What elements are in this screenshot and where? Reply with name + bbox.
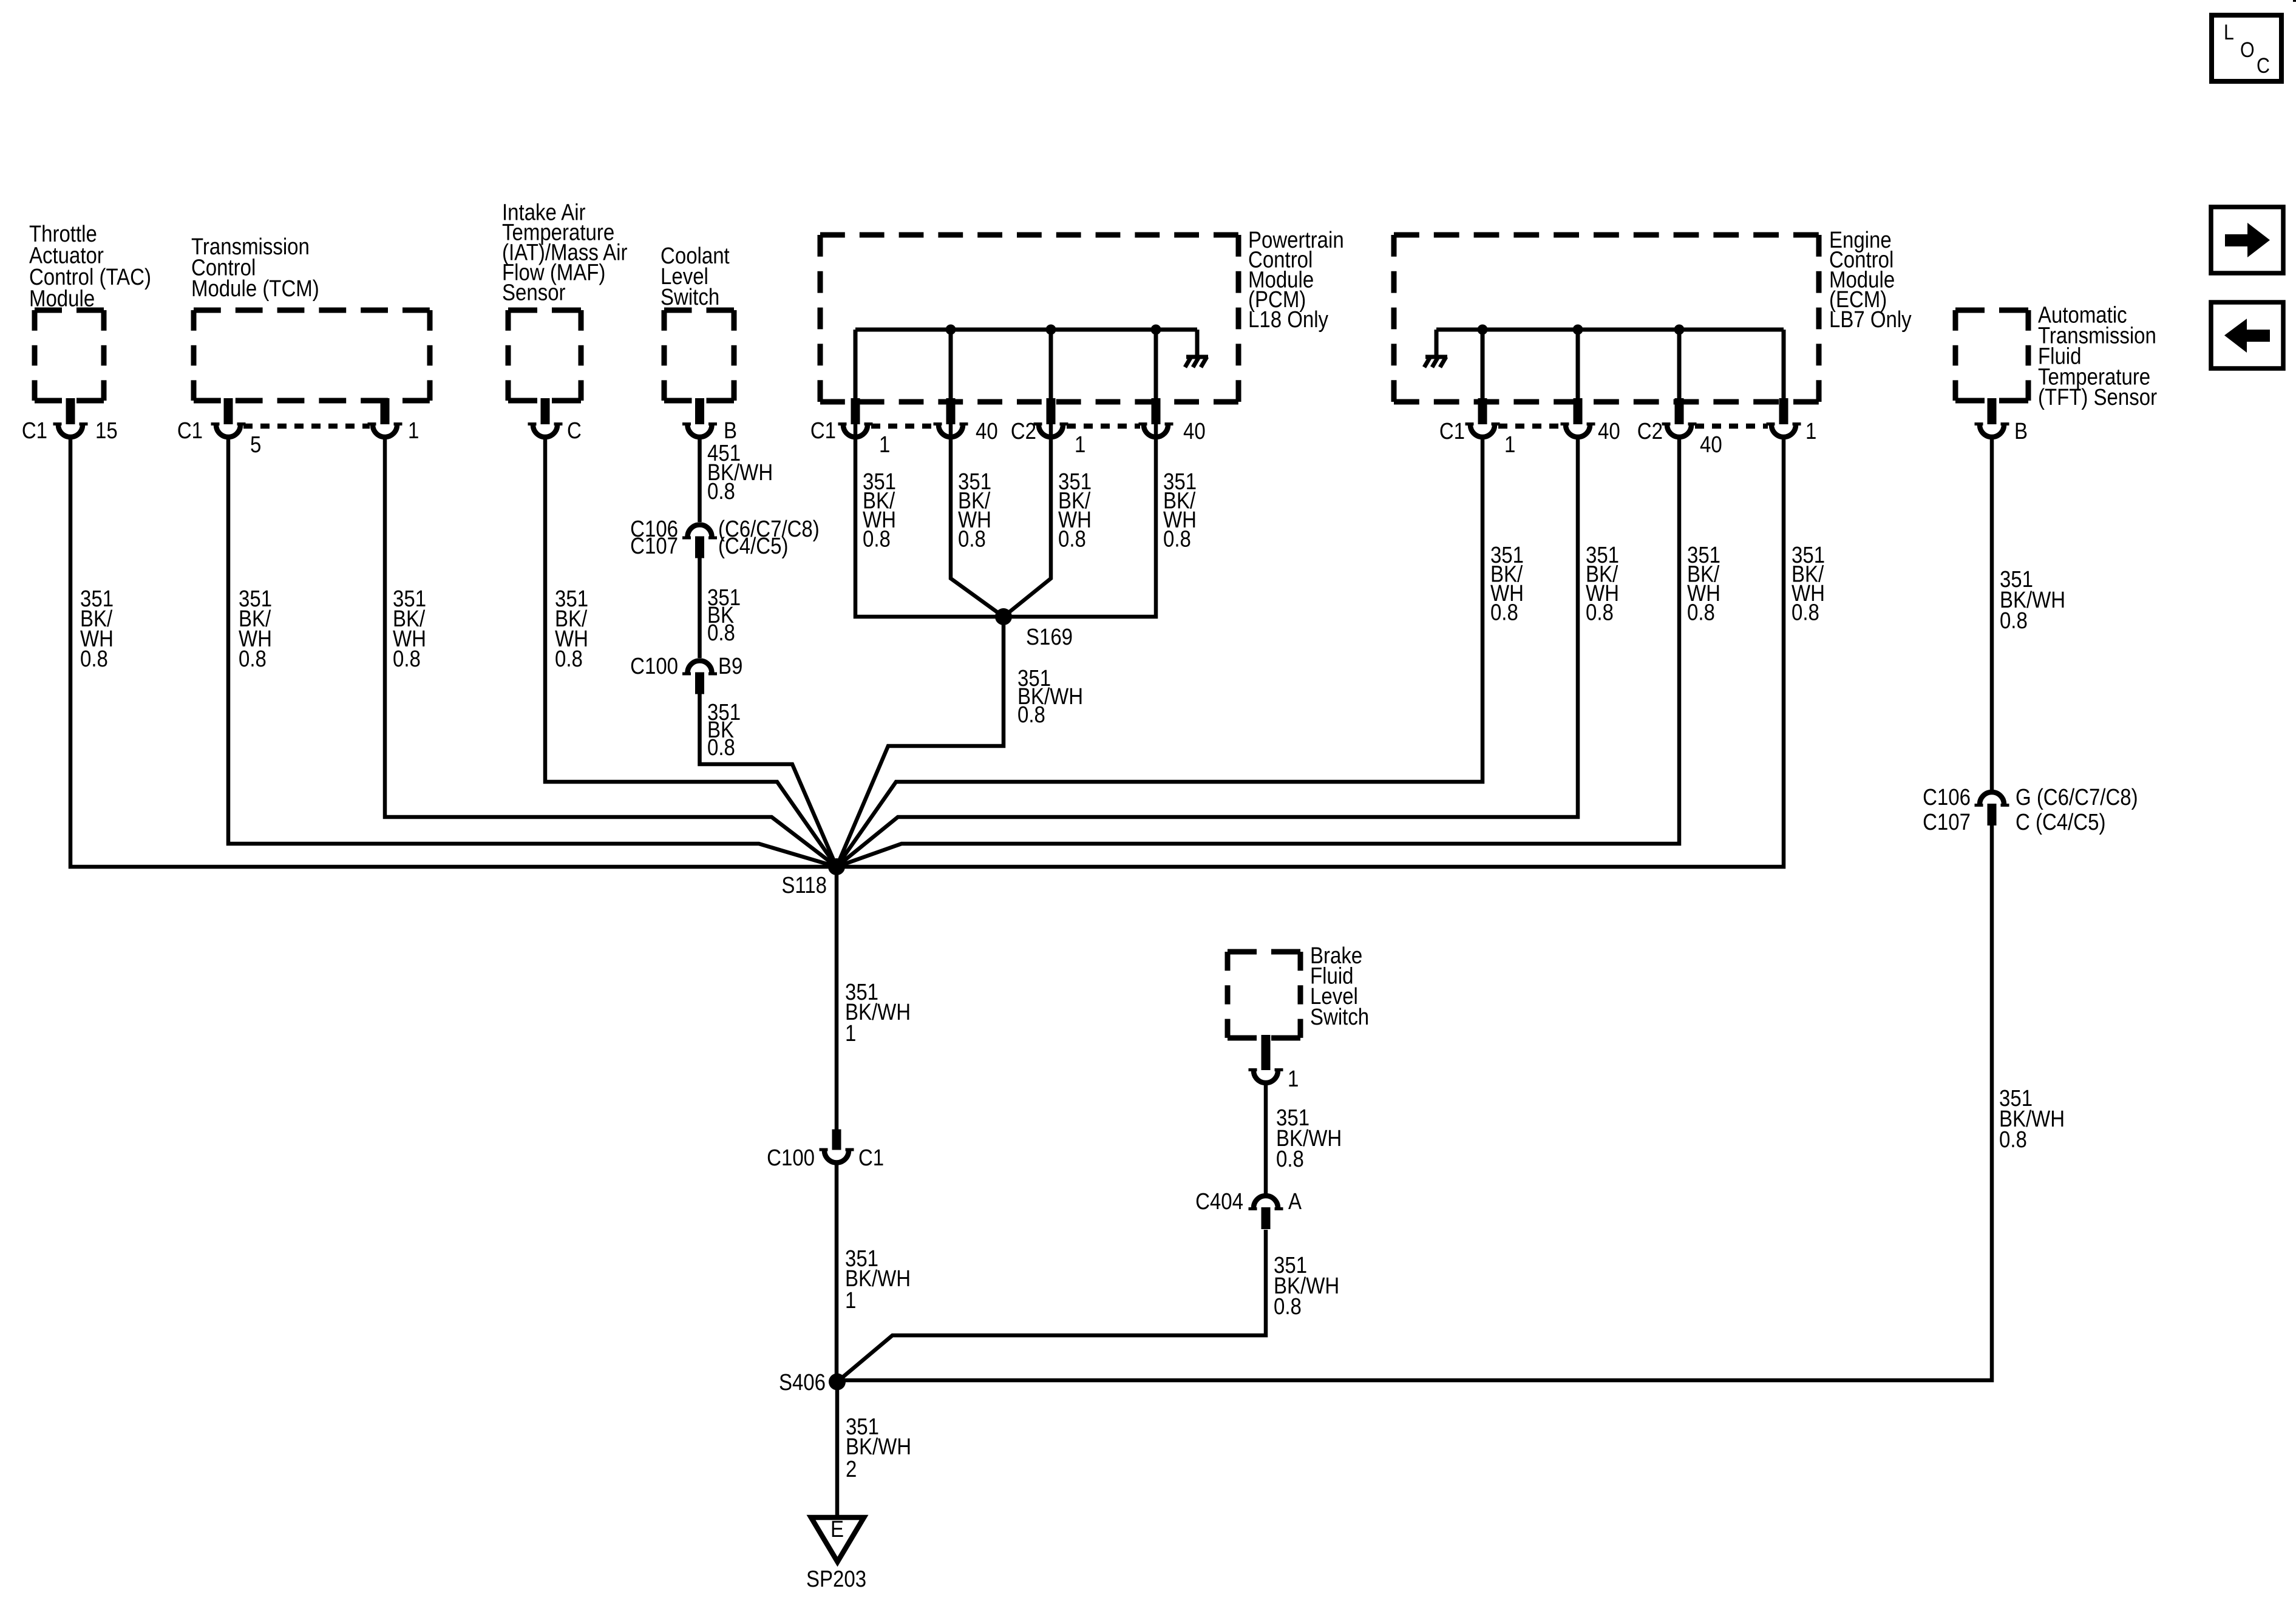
svg-text:S118: S118: [781, 872, 827, 898]
svg-text:C: C: [2257, 53, 2270, 78]
svg-text:40: 40: [1598, 418, 1620, 444]
svg-text:1: 1: [845, 1287, 856, 1314]
svg-text:Switch: Switch: [661, 284, 719, 310]
svg-text:Sensor: Sensor: [502, 279, 566, 305]
svg-text:C1: C1: [1439, 418, 1465, 444]
svg-text:0.8: 0.8: [1276, 1146, 1304, 1172]
svg-text:C2: C2: [1637, 418, 1663, 444]
svg-text:0.8: 0.8: [80, 646, 108, 672]
svg-text:C107: C107: [1923, 809, 1971, 835]
svg-text:40: 40: [976, 418, 998, 444]
svg-text:Module (TCM): Module (TCM): [191, 276, 319, 302]
svg-text:Switch: Switch: [1310, 1004, 1369, 1030]
svg-text:0.8: 0.8: [707, 734, 735, 761]
svg-text:Module: Module: [29, 285, 95, 311]
svg-text:LB7 Only: LB7 Only: [1829, 307, 1912, 333]
svg-text:1: 1: [1504, 432, 1515, 458]
svg-text:0.8: 0.8: [1586, 599, 1614, 625]
svg-text:C: C: [567, 418, 582, 444]
svg-text:1: 1: [1075, 432, 1085, 458]
svg-text:0.8: 0.8: [1058, 526, 1086, 552]
svg-text:0.8: 0.8: [958, 526, 986, 552]
svg-text:(TFT) Sensor: (TFT) Sensor: [2038, 384, 2157, 410]
svg-text:5: 5: [250, 432, 261, 458]
svg-text:0.8: 0.8: [2000, 608, 2028, 634]
svg-text:0.8: 0.8: [1163, 526, 1191, 552]
svg-text:0.8: 0.8: [1999, 1127, 2027, 1153]
svg-text:C (C4/C5): C (C4/C5): [2016, 809, 2105, 835]
svg-text:0.8: 0.8: [1017, 702, 1045, 728]
svg-text:0.8: 0.8: [1687, 599, 1715, 625]
svg-text:L18 Only: L18 Only: [1248, 307, 1328, 333]
svg-text:0.8: 0.8: [1274, 1293, 1302, 1320]
svg-text:0.8: 0.8: [239, 646, 267, 672]
svg-text:A: A: [1288, 1188, 1302, 1215]
svg-text:C100: C100: [630, 653, 678, 679]
svg-text:C404: C404: [1195, 1188, 1243, 1215]
svg-text:2: 2: [846, 1456, 857, 1482]
svg-text:(C4/C5): (C4/C5): [718, 533, 788, 559]
svg-text:B: B: [2014, 418, 2028, 444]
svg-text:L: L: [2224, 20, 2234, 44]
svg-text:1: 1: [879, 432, 890, 458]
svg-text:G (C6/C7/C8): G (C6/C7/C8): [2016, 784, 2138, 810]
svg-text:1: 1: [1288, 1066, 1299, 1092]
svg-text:0.8: 0.8: [555, 646, 583, 672]
svg-text:1: 1: [408, 418, 419, 444]
svg-text:C1: C1: [177, 418, 203, 444]
svg-text:0.8: 0.8: [707, 478, 735, 504]
svg-text:0.8: 0.8: [707, 620, 735, 646]
svg-text:1: 1: [845, 1020, 856, 1046]
svg-text:O: O: [2240, 38, 2255, 62]
svg-text:0.8: 0.8: [1490, 599, 1518, 625]
svg-text:40: 40: [1700, 432, 1722, 458]
svg-text:B9: B9: [718, 653, 742, 679]
svg-text:S169: S169: [1026, 624, 1073, 650]
svg-text:SP203: SP203: [806, 1566, 866, 1592]
svg-text:0.8: 0.8: [863, 526, 891, 552]
svg-text:C106: C106: [1923, 784, 1971, 810]
svg-text:C1: C1: [22, 418, 47, 444]
svg-text:1: 1: [1805, 418, 1816, 444]
svg-text:C1: C1: [858, 1145, 884, 1171]
svg-text:0.8: 0.8: [393, 646, 421, 672]
svg-text:15: 15: [95, 418, 118, 444]
svg-text:S406: S406: [779, 1369, 826, 1395]
svg-text:C107: C107: [630, 533, 678, 559]
svg-text:40: 40: [1183, 418, 1206, 444]
svg-text:C100: C100: [767, 1145, 815, 1171]
svg-text:E: E: [830, 1516, 844, 1542]
svg-text:C2: C2: [1011, 418, 1036, 444]
svg-text:0.8: 0.8: [1792, 599, 1819, 625]
svg-text:C1: C1: [810, 418, 836, 444]
